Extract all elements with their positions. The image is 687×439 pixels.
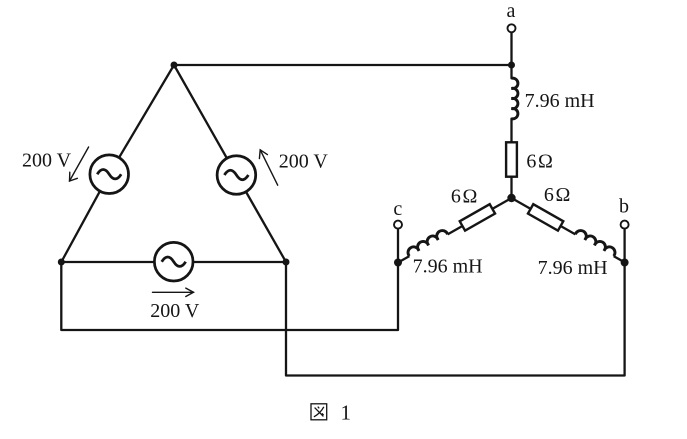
svg-text:200 V: 200 V [22, 150, 72, 172]
wire top horizontal from delta apex to node a column [174, 64, 512, 66]
node delta bottom-right [283, 259, 290, 266]
wire terminal b stub [623, 229, 625, 263]
wire terminal a stub [510, 33, 512, 79]
svg-text:200 V: 200 V [150, 300, 200, 322]
terminal c [394, 221, 402, 229]
wire star point to resistor (phase c) [492, 198, 511, 209]
svg-text:c: c [393, 198, 402, 220]
node delta bottom-left [58, 259, 65, 266]
svg-text:7.96 mH: 7.96 mH [538, 257, 608, 279]
svg-text:7.96 mH: 7.96 mH [413, 256, 483, 278]
svg-text:200 V: 200 V [279, 150, 329, 172]
wire resistor to inductor (phase c) [448, 226, 463, 234]
wire delta bottom side [61, 261, 286, 263]
svg-text:6 Ω: 6 Ω [544, 184, 571, 206]
source V2 right (200 V) [217, 156, 256, 195]
wire delta right side [174, 65, 286, 262]
svg-text:a: a [507, 0, 516, 22]
wire from bottom-left vertex down and right to node c [61, 262, 398, 330]
resistor R_b 6 ohm [528, 204, 563, 230]
inductor L_a 7.96 mH (vertical) [512, 78, 518, 119]
caption figure glyph (zu) drawn as strokes [311, 404, 327, 420]
phase c branch (left, rotated 150.36deg) [395, 192, 514, 267]
inductor L_c 7.96 mH [406, 229, 448, 257]
wire star point to resistor (phase b) [512, 198, 531, 209]
wire inductor to node c [398, 256, 409, 262]
node delta apex [171, 62, 178, 69]
svg-text:7.96 mH: 7.96 mH [525, 90, 595, 112]
svg-text:6 Ω: 6 Ω [526, 151, 553, 173]
wire from bottom-right vertex down and right to node b [286, 262, 625, 376]
node a junction [508, 62, 515, 69]
wire resistor to inductor (phase b) [561, 226, 576, 234]
phase b branch (right, rotated 29.64deg) [509, 192, 628, 267]
node c junction [394, 259, 402, 267]
svg-text:6 Ω: 6 Ω [451, 186, 478, 208]
arrow for right source voltage [259, 150, 277, 185]
source V3 bottom (200 V) [154, 242, 193, 281]
inductor L_b 7.96 mH [575, 229, 617, 257]
arrow for bottom source voltage [153, 288, 194, 296]
resistor R_a 6 ohm (vertical) [506, 142, 517, 176]
wire delta left side [61, 65, 174, 262]
wire inductor to resistor (phase a) [510, 119, 512, 143]
svg-text:1: 1 [341, 401, 352, 425]
wire resistor to star point (phase a) [510, 177, 512, 198]
svg-text:b: b [619, 196, 629, 218]
node star point [507, 194, 515, 202]
resistor R_c 6 ohm [460, 204, 495, 230]
node b junction [621, 259, 629, 267]
terminal a [508, 24, 516, 32]
arrow for left source voltage [70, 147, 89, 181]
source V1 left (200 V) [90, 155, 129, 194]
wire terminal c stub [397, 229, 399, 263]
terminal b [621, 221, 629, 229]
wire inductor to node b [614, 256, 625, 262]
